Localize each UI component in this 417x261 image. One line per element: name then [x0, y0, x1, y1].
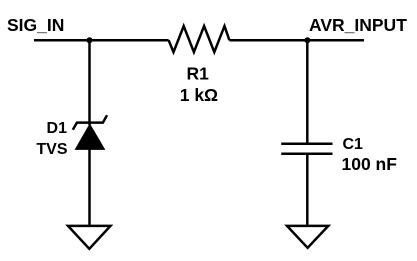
- svg-text:100 nF: 100 nF: [342, 154, 398, 174]
- svg-text:AVR_INPUT: AVR_INPUT: [309, 15, 407, 35]
- svg-text:C1: C1: [343, 136, 364, 153]
- svg-text:D1: D1: [47, 120, 68, 137]
- svg-text:TVS: TVS: [36, 141, 67, 158]
- svg-text:1 kΩ: 1 kΩ: [180, 85, 218, 105]
- svg-text:R1: R1: [187, 63, 210, 83]
- svg-text:SIG_IN: SIG_IN: [7, 15, 64, 35]
